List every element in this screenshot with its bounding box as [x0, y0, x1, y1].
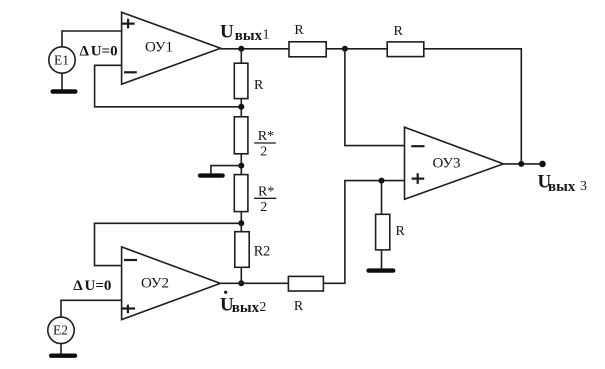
svg-text:1: 1: [263, 27, 270, 42]
svg-text:R2: R2: [254, 243, 271, 259]
svg-text:вых: вых: [232, 300, 260, 316]
ground under E1: [51, 89, 78, 94]
source E1: [49, 47, 75, 73]
svg-text:2: 2: [260, 299, 267, 314]
wire node F to R: [381, 181, 383, 215]
label Uvyh2: [220, 291, 266, 316]
U1 non-inverting pin +: [122, 19, 135, 29]
svg-text:R: R: [254, 78, 264, 93]
resistor R*/2 upper: [234, 117, 248, 154]
resistor R horizontal top-right feedback: [387, 42, 424, 57]
wire E1 to U1 non-inverting input: [62, 31, 122, 47]
wire R to node A: [326, 48, 387, 50]
wire to node C: [240, 154, 242, 175]
wire U3 output: [503, 163, 542, 165]
label Uvyh1: [220, 22, 270, 44]
wire to node D: [240, 212, 242, 232]
svg-text:R*: R*: [258, 184, 274, 199]
node E: [238, 280, 244, 286]
U2 inverting pin -: [124, 259, 137, 261]
resistor R to ground: [376, 214, 390, 250]
wire E2 to U2 non-inverting input: [61, 300, 122, 317]
wire R to ground: [381, 250, 383, 269]
wire R2 to node E: [240, 267, 242, 283]
node Uout1: [238, 46, 244, 52]
wire U1 feedback to inverting input: [95, 65, 242, 107]
node A: [342, 46, 348, 52]
resistor R*/2 lower: [234, 175, 248, 212]
svg-text:вых: вых: [235, 28, 263, 44]
wire E2 to ground: [60, 344, 62, 354]
U3 inverting pin -: [411, 145, 424, 147]
node D: [238, 220, 244, 226]
resistor R horizontal bottom: [288, 276, 323, 291]
svg-text:2: 2: [260, 200, 267, 215]
svg-text:вых: вых: [548, 179, 576, 195]
ground under R: [366, 268, 395, 272]
wire R to node B: [240, 99, 242, 117]
ground under E2: [49, 354, 77, 358]
svg-text:R: R: [294, 23, 304, 38]
wire node D feedback to U2 inverting input: [95, 223, 242, 265]
svg-text:ОУ1: ОУ1: [145, 40, 173, 56]
op-amp U2: [122, 247, 221, 320]
label Uvyh3: [538, 172, 588, 195]
svg-text:U: U: [220, 22, 234, 43]
U1 inverting pin -: [124, 71, 137, 73]
resistor R horizontal top-left: [289, 42, 326, 57]
svg-text:E2: E2: [53, 323, 68, 338]
wire node Uout1 down to R: [240, 49, 242, 63]
node F at U3 non-inverting input: [379, 178, 385, 184]
svg-text:E1: E1: [54, 52, 69, 67]
svg-text:ΔU=0: ΔU=0: [73, 278, 111, 294]
svg-text:R: R: [396, 224, 406, 239]
svg-text:ОУ2: ОУ2: [141, 275, 169, 291]
op-amp U1: [122, 12, 221, 84]
svg-text:2: 2: [260, 145, 267, 160]
resistor R2: [235, 232, 249, 268]
wire U1 output: [221, 48, 289, 50]
terminal Uvyh3: [539, 161, 546, 168]
node C: [238, 163, 244, 169]
node U3 output feedback junction: [518, 161, 524, 167]
wire R to U3 non-inverting input: [323, 181, 404, 284]
wire node C to ground: [211, 166, 241, 174]
wire U2 output: [220, 282, 288, 284]
svg-text:R*: R*: [258, 129, 274, 144]
svg-text:R: R: [394, 24, 404, 39]
label R*/2: [254, 184, 276, 215]
resistor R vertical upper: [234, 63, 248, 98]
svg-text:ОУ3: ОУ3: [432, 155, 460, 171]
wire feedback R to U3 output: [424, 49, 522, 164]
node B: [238, 104, 244, 110]
ground mid: [198, 173, 225, 177]
wire node A to U3 inverting input: [345, 49, 405, 146]
wire E1 to ground: [61, 73, 63, 89]
U2 non-inverting pin +: [122, 305, 135, 314]
svg-text:R: R: [294, 299, 304, 314]
label R*/2: [254, 129, 276, 160]
svg-text:3: 3: [580, 179, 587, 194]
svg-text:ΔU=0: ΔU=0: [80, 44, 118, 60]
op-amp U3: [405, 127, 504, 199]
U3 non-inverting pin +: [412, 173, 425, 184]
source E2: [48, 317, 74, 343]
